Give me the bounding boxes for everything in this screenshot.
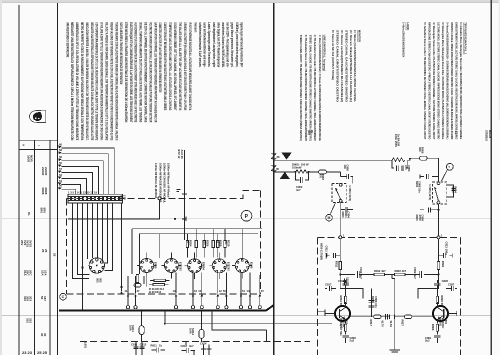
relay box 2 xyxy=(432,182,446,204)
oval fuse left xyxy=(134,284,141,288)
wire B corner down xyxy=(339,172,341,177)
svg-text:3= TB-Aufnahme Stereo links /: 3= TB-Aufnahme Stereo links / TB-RECORDI… xyxy=(313,35,317,141)
wire B cont xyxy=(309,171,319,173)
svg-text:6903: 6903 xyxy=(341,212,345,218)
wire A cont to oval xyxy=(408,158,420,160)
svg-text:C614: C614 xyxy=(200,341,207,345)
svg-text:5= TB-Aufnahme Stereo rechts /: 5= TB-Aufnahme Stereo rechts / TB-RECORD… xyxy=(304,35,308,141)
relay box S/M xyxy=(332,183,346,202)
right scan edge band xyxy=(499,0,500,120)
svg-text:C611: C611 xyxy=(131,343,138,347)
cap C802 emitter xyxy=(342,336,356,343)
socket V4 label xyxy=(227,262,231,271)
cap C952 bridge xyxy=(296,172,309,183)
svg-text:EF804: EF804 xyxy=(202,262,206,270)
svg-text:MEDIANTE UNA RESISTENZA DI SEP: MEDIANTE UNA RESISTENZA DI SEPARAZIONE T… xyxy=(90,22,94,140)
fan wire 2 xyxy=(62,154,109,194)
svg-text:BT2 12: BT2 12 xyxy=(177,150,181,159)
fan wire 8 xyxy=(62,189,76,194)
bottom cap group 1 xyxy=(131,342,147,355)
svg-text:B 211/214: B 211/214 xyxy=(149,290,162,294)
cap C909 below relay2 xyxy=(415,204,440,238)
bus drop left 1 xyxy=(131,229,133,274)
wire B horizontal xyxy=(274,171,295,173)
svg-text:1k: 1k xyxy=(159,343,162,347)
svg-text:58: 58 xyxy=(59,148,62,152)
cap C813 below left junction xyxy=(343,277,349,285)
note block German xyxy=(193,22,243,68)
tube socket V5 xyxy=(232,253,252,279)
main right vertical x438.5 xyxy=(438,158,440,182)
left scan edge band xyxy=(0,0,2,355)
svg-text:1 3 5 7 9 11 13 15 17 19: 1 3 5 7 9 11 13 15 17 19 xyxy=(68,190,97,194)
oval resistor R953 xyxy=(319,170,341,174)
svg-text:10n: 10n xyxy=(343,165,347,170)
resistor row r6 xyxy=(224,229,226,258)
svg-text:C816: C816 xyxy=(338,279,345,283)
resistor row labels xyxy=(186,240,193,247)
wire break squiggle B xyxy=(272,166,277,172)
cap C821 stub xyxy=(439,242,453,258)
cap C822 on wire xyxy=(405,267,422,279)
svg-text:C613: C613 xyxy=(181,344,188,348)
svg-text:01A: 01A xyxy=(23,270,27,276)
tube socket V2 xyxy=(161,253,181,279)
vertical x394.8 down xyxy=(389,279,400,353)
label S/M xyxy=(348,186,352,202)
mirror wire from right junction xyxy=(424,274,439,276)
svg-text:49R6: 49R6 xyxy=(41,187,45,195)
svg-text:STEREO CANAL DROIT / TB-REGIST: STEREO CANAL DROIT / TB-REGISTRAZIONE ST… xyxy=(299,35,303,141)
lower dashed box left edge xyxy=(316,237,318,355)
svg-text:1= Mono (CHASSIS/MASSE/MASA) M: 1= Mono (CHASSIS/MASSE/MASA) MONO CHANNE… xyxy=(353,30,357,102)
connector pin arrow 60 xyxy=(58,142,62,148)
cap C235 on dashed line xyxy=(177,150,188,240)
transistor T801 xyxy=(433,302,457,323)
svg-text:C822 4u7: C822 4u7 xyxy=(413,267,417,279)
svg-text:ETRE MESUREES A TRAVERS UNE RE: ETRE MESUREES A TRAVERS UNE RESISTANCE D… xyxy=(124,22,128,122)
L wire from bus down right 1 xyxy=(165,311,332,324)
svg-text:5= Aufnahme Stereo rechts / TB: 5= Aufnahme Stereo rechts / TB-RECORDING… xyxy=(423,22,427,139)
sidebar entries xyxy=(20,155,57,337)
svg-text:AMBIENTALE DI 20°C E COL REGOL: AMBIENTALE DI 20°C E COL REGOLATORE DI V… xyxy=(75,22,79,140)
oval fuse F611 xyxy=(139,312,144,342)
base rail left xyxy=(317,309,325,314)
svg-text:LECTURE MONO, LECTURE STEREO C: LECTURE MONO, LECTURE STEREO CANAL GAUCH… xyxy=(437,22,441,139)
wire bundle w5 xyxy=(92,203,94,258)
svg-text:2= Stereo links(1)/STEREO LH C: 2= Stereo links(1)/STEREO LH CHANNEL(1) xyxy=(349,30,353,102)
wire bundle w7 xyxy=(102,203,104,260)
svg-text:10MOhm), wenn nicht anders ang: 10MOhm), wenn nicht anders angegeben, xyxy=(235,22,239,67)
label 2x BA100 xyxy=(394,134,401,147)
svg-text:~: ~ xyxy=(38,144,40,148)
junction dots bottom xyxy=(164,323,166,325)
svg-text:57: 57 xyxy=(59,167,62,171)
ground contact C circle xyxy=(60,293,67,300)
wire x117.5 with junction and arrow xyxy=(120,203,123,294)
svg-text:CAPACITOR MUST BE MEASURED WIT: CAPACITOR MUST BE MEASURED WITH AN ELECT… xyxy=(163,22,167,110)
middle vertical x371.5 xyxy=(368,289,378,317)
fan wire 5 xyxy=(62,173,93,195)
svg-text:310: 310 xyxy=(26,318,30,323)
resistor row r1 xyxy=(186,234,188,258)
fuse label F612 xyxy=(188,328,195,336)
svg-text:MONITOR: MONITOR xyxy=(358,30,362,43)
svg-text:EF80: EF80 xyxy=(154,262,158,269)
svg-text:1k5: 1k5 xyxy=(203,240,207,245)
svg-text:R827: R827 xyxy=(400,320,404,327)
resistor row r2 xyxy=(195,229,197,258)
svg-text:6903: 6903 xyxy=(415,181,419,187)
sidebar line x50 xyxy=(49,140,51,355)
dashed box left edge xyxy=(66,198,68,293)
wire bundle w6 xyxy=(97,203,99,258)
emitter resistor R806 xyxy=(431,324,439,335)
svg-text:5R0: 5R0 xyxy=(39,208,43,214)
bus line lower xyxy=(140,233,259,235)
caps left of relay2 xyxy=(415,174,439,193)
svg-text:50: 50 xyxy=(223,289,226,293)
svg-text:1101er-M/ MASA AF-MODUL: 1101er-M/ MASA AF-MODUL xyxy=(154,163,158,199)
svg-text:53: 53 xyxy=(59,173,62,177)
svg-text:2u2: 2u2 xyxy=(425,338,430,342)
bottom cap group 2 xyxy=(151,343,166,352)
junction dots RC xyxy=(295,171,297,173)
lower dashed box right edge xyxy=(460,237,462,355)
label C952 xyxy=(296,185,303,192)
label C903 xyxy=(404,165,411,172)
svg-text:GRUNDIG VOLTMETER (Ri=10MOhm): GRUNDIG VOLTMETER (Ri=10MOhm) AND SHOULD… xyxy=(183,22,187,110)
svg-text:Y: Y xyxy=(448,165,450,169)
connector pin arrow 54 xyxy=(58,179,62,185)
fan wire 7 xyxy=(62,184,81,194)
svg-text:47: 47 xyxy=(137,289,140,293)
fold line lower xyxy=(2,315,491,317)
svg-text:6903: 6903 xyxy=(371,296,375,302)
svg-text:TEMPERATURE AND CLOSED VOLUME: TEMPERATURE AND CLOSED VOLUME CONTROL. A… xyxy=(168,22,172,110)
emitter resistor R807 xyxy=(339,324,347,336)
label R953 xyxy=(318,174,325,181)
svg-text:2u2: 2u2 xyxy=(350,338,355,342)
sidebar line x34.5 xyxy=(34,140,36,355)
dashed box right edge xyxy=(260,190,262,293)
svg-text:1k: 1k xyxy=(216,240,220,243)
svg-text:R822 4k7: R822 4k7 xyxy=(395,269,407,273)
svg-text:RIPRODUZIONE STEREO CANALE DES: RIPRODUZIONE STEREO CANALE DESTRO / PRES… xyxy=(428,22,432,139)
cap on mid rail xyxy=(380,314,387,327)
tube socket V4 xyxy=(209,252,229,278)
svg-text:1= Mono (CHASSIS/MASSE/MASSA): 1= Mono (CHASSIS/MASSE/MASSA) / 2= Masse… xyxy=(318,35,322,141)
label Ls xyxy=(454,131,458,135)
oval resistor on mid rail xyxy=(369,315,381,326)
svg-text:60: 60 xyxy=(59,142,62,146)
svg-text:STEREO CANAL GAUCHE/STEREO SIN: STEREO CANAL GAUCHE/STEREO SINISTRO xyxy=(344,30,348,103)
label L601 xyxy=(84,342,88,349)
svg-text:UNA RESISTENZA DI SEPARAZIONE: UNA RESISTENZA DI SEPARAZIONE xyxy=(65,22,69,57)
svg-text:310: 310 xyxy=(23,296,27,301)
svg-text:R812 4k7: R812 4k7 xyxy=(374,269,386,273)
svg-text:U 908 (1176): U 908 (1176) xyxy=(428,185,432,201)
svg-text:Ls: Ls xyxy=(454,131,458,135)
svg-text:MEDIANTE UNA RESISTENZA DI SEP: MEDIANTE UNA RESISTENZA DI SEPARAZIONE D… xyxy=(70,22,74,140)
label module 6903 xyxy=(320,243,324,260)
cap C801 emitter xyxy=(425,336,441,343)
svg-text:0,8A: 0,8A xyxy=(188,328,192,334)
tiny corner note xyxy=(485,130,493,141)
connector pin arrow 58 xyxy=(58,148,62,154)
svg-text:303: 303 xyxy=(96,278,100,283)
resistor cluster left vertical xyxy=(136,275,138,285)
svg-text:1= Aufnahme Mono, Wiedergabe S: 1= Aufnahme Mono, Wiedergabe Stereo link… xyxy=(459,22,463,139)
svg-text:ten bei 220V~ Netzspannung und: ten bei 220V~ Netzspannung und ein- xyxy=(226,22,230,67)
svg-text:56: 56 xyxy=(59,155,62,159)
svg-text:schaltetem Kondensator 0,1uF m: schaltetem Kondensator 0,1uF messen. xyxy=(198,22,202,67)
mid rail y316.8 xyxy=(351,315,433,319)
svg-text:C817: C817 xyxy=(325,282,332,286)
wire right from junction xyxy=(340,274,355,276)
svg-text:MILLIVOLT A PRESSO SU NOR 2x4W: MILLIVOLT A PRESSO SU NOR 2x4W/ML SENZA … xyxy=(105,22,109,140)
cap C812 on wire xyxy=(358,267,375,279)
cap C811 stub xyxy=(325,246,341,260)
svg-text:=: = xyxy=(23,144,25,148)
svg-text:sator mit Roehrenvoltmeter und: sator mit Roehrenvoltmeter und vorge- xyxy=(203,22,207,67)
svg-text:470: 470 xyxy=(318,174,322,179)
svg-text:25 25: 25 25 xyxy=(37,350,48,355)
resistor R821 xyxy=(437,261,445,289)
connector pin arrow 55 xyxy=(58,161,62,167)
svg-text:6903: 6903 xyxy=(451,187,455,193)
label C904 xyxy=(341,212,351,219)
label relay 2 xyxy=(428,185,432,201)
wire bundle below strip w1 xyxy=(73,203,90,279)
svg-text:25: 25 xyxy=(53,253,57,257)
pickup circle Y1 xyxy=(442,163,454,181)
socket V3 label xyxy=(202,262,206,270)
resistor row r5 xyxy=(217,234,219,258)
svg-text:3= Wiedergabe Mono, Wiedergabe: 3= Wiedergabe Mono, Wiedergabe Stereo li… xyxy=(441,22,445,139)
sidebar header row xyxy=(19,140,58,149)
pin circle right input xyxy=(437,236,440,239)
junction right stage xyxy=(438,274,440,276)
svg-text:C827: C827 xyxy=(448,282,455,286)
cap C904 below relay xyxy=(340,184,353,238)
svg-text:30: 30 xyxy=(40,333,44,337)
svg-text:GOOD WORKING ORDER. SET TO NOR: GOOD WORKING ORDER. SET TO NOR 2x4W/ML, … xyxy=(173,22,177,111)
svg-text:DI VOLUME A ZERO TUTTE LE TENS: DI VOLUME A ZERO TUTTE LE TENSIONI SONO … xyxy=(100,22,104,140)
logo emblem xyxy=(29,110,45,122)
svg-text:54: 54 xyxy=(59,179,62,183)
svg-text:gegen Masse gemessen. Messwert: gegen Masse gemessen. Messwerte gel- xyxy=(230,22,234,67)
contact arrows row on dashed line xyxy=(125,273,265,297)
bus line upper xyxy=(132,228,262,230)
list MONITOR xyxy=(331,30,361,103)
svg-text:SAUF INDICATION CONTRAIRE, LES: SAUF INDICATION CONTRAIRE, LES TENSIONS … xyxy=(153,22,157,122)
svg-text:1= Mono (CHASSIS/MASSE/MASSA: 1= Mono (CHASSIS/MASSE/MASSA xyxy=(402,22,406,58)
wire bundle w3 + junction xyxy=(82,203,84,310)
label R956 xyxy=(418,147,425,154)
wire bundle w8 xyxy=(104,203,108,263)
cap C817 stub left xyxy=(325,282,336,291)
right collector parts: cap C826 top xyxy=(418,279,449,299)
svg-text:35: 35 xyxy=(276,167,279,171)
svg-text:100n 250V: 100n 250V xyxy=(394,134,398,147)
drop from L wire 1 xyxy=(266,330,268,342)
svg-text:VOLTMETRE GRUNDIG (Ri=10MOhm).: VOLTMETRE GRUNDIG (Ri=10MOhm). LES VALEU… xyxy=(148,22,152,122)
svg-text:wandfreiem Zustand auf NOR 2x4: wandfreiem Zustand auf NOR 2x4 W/ML xyxy=(221,22,225,68)
svg-text:13: 13 xyxy=(173,289,176,293)
svg-text:4n7: 4n7 xyxy=(189,344,194,348)
bus drop left 2 xyxy=(139,234,141,274)
svg-text:ohne Signal, bei 20°C Raumtemp: ohne Signal, bei 20°C Raumtemperatur xyxy=(216,22,220,67)
right stage vertical line xyxy=(438,239,440,262)
svg-text:6L7V: 6L7V xyxy=(380,321,384,328)
wires from arrows to bus pins xyxy=(128,297,260,307)
label R211/R214 xyxy=(149,287,164,294)
svg-text:R806: R806 xyxy=(431,324,435,331)
resistor R955 zigzag on wire A xyxy=(392,158,405,162)
wire bundle w2 xyxy=(78,203,90,275)
label T802 xyxy=(339,318,348,328)
svg-text:6903: 6903 xyxy=(415,215,419,221)
svg-text:14: 14 xyxy=(247,289,250,293)
socket label 302 303 xyxy=(96,278,103,283)
label D961 xyxy=(292,162,309,169)
svg-text:und eingebautem Lautsprecher,: und eingebautem Lautsprecher, regler xyxy=(212,22,216,67)
resistor R816 on collector xyxy=(339,296,347,308)
svg-text:R821: R821 xyxy=(441,261,445,268)
wire A horizontal xyxy=(274,159,392,161)
pin circle left input xyxy=(339,236,342,239)
svg-text:CONNECTED CAPACITOR OF 0,1uF.: CONNECTED CAPACITOR OF 0,1uF. MUST BE ME… xyxy=(158,22,162,92)
connector pin arrow 56 xyxy=(58,155,62,161)
fuse label F611 xyxy=(128,325,135,332)
resistor R811 xyxy=(334,261,345,289)
svg-text:AUX BORNES D'UN CONDENSATEUR D: AUX BORNES D'UN CONDENSATEUR DE LIAISON … xyxy=(134,22,138,122)
dashed box bottom edge xyxy=(67,293,261,295)
tube socket V3 xyxy=(185,252,205,278)
svg-text:ECC83: ECC83 xyxy=(179,262,183,271)
heater indicator circle G xyxy=(241,210,252,221)
svg-text:LINE (UNIVERSAL, Ausgang): LINE (UNIVERSAL, Ausgang) xyxy=(323,35,327,71)
svg-text:1000er-M/ MASSE MODULE BF: 1000er-M/ MASSE MODULE BF xyxy=(158,163,162,203)
svg-text:5= Stereo im NF-Teil (OUTPUT S: 5= Stereo im NF-Teil (OUTPUT STAGE) xyxy=(331,30,335,80)
svg-text:ELECTRONIQUE ET UN CONDENSATEU: ELECTRONIQUE ET UN CONDENSATEUR DE 0,1uF… xyxy=(129,22,133,123)
fold line upper xyxy=(2,217,491,219)
svg-text:0,8A: 0,8A xyxy=(128,325,132,331)
connector pin arrow 57 xyxy=(58,167,62,173)
oval fuse F612 xyxy=(199,312,204,342)
svg-text:(6903): (6903) xyxy=(439,318,443,326)
bus drop V5 xyxy=(241,229,243,253)
resistor row r3 xyxy=(203,234,205,258)
svg-text:41: 41 xyxy=(125,289,128,293)
svg-text:L601: L601 xyxy=(84,342,88,349)
wire bundle w9 xyxy=(105,203,113,271)
svg-text:THE VALUES GIVEN. ALL VALUES F: THE VALUES GIVEN. ALL VALUES FOR 220V~ A… xyxy=(178,22,182,110)
oval resistor R956 xyxy=(420,156,439,160)
svg-text:ECC83: ECC83 xyxy=(227,262,231,271)
fan wire 4 xyxy=(62,167,99,195)
socket V5 label xyxy=(250,262,254,269)
svg-text:160R: 160R xyxy=(26,155,30,163)
svg-text:R811: R811 xyxy=(334,261,338,268)
dashed bottom rail xyxy=(80,341,310,343)
list LINE UNIVERSAL xyxy=(299,35,327,141)
wire bundle w4 xyxy=(87,203,89,259)
svg-text:STEREO CANAL GAUCHE / TB-REGIS: STEREO CANAL GAUCHE / TB-REGISTRAZIONE S… xyxy=(309,35,313,141)
diagonal to M circle xyxy=(331,203,336,214)
svg-text:45: 45 xyxy=(261,289,264,293)
right page border line xyxy=(490,0,492,355)
bus drop V2 xyxy=(159,234,161,258)
svg-text:DE 220V CA, L'APPAREIL EN ETAT: DE 220V CA, L'APPAREIL EN ETAT DE FONCTI… xyxy=(144,22,148,122)
oval resistor right mid rail xyxy=(400,315,412,326)
fan wire 3 xyxy=(62,161,104,195)
note block French xyxy=(119,22,157,123)
svg-text:55: 55 xyxy=(59,161,62,165)
dashed box tube section top edge xyxy=(67,190,261,198)
svg-text:ENREGISTREMENT MONO, LECTURE S: ENREGISTREMENT MONO, LECTURE STEREO CANA… xyxy=(455,22,459,139)
fan wire 6 xyxy=(62,179,87,195)
svg-text:C821 100n: C821 100n xyxy=(445,242,449,256)
svg-text:CON TEMPERATURA AMBIENTALE DI: CON TEMPERATURA AMBIENTALE DI 20°C E COL… xyxy=(95,22,99,140)
resistor R812 horizontal xyxy=(374,269,392,279)
svg-text:TENSIONI MISURATE CON MILLIVOL: TENSIONI MISURATE CON MILLIVOLTMETRO GRU… xyxy=(114,22,118,140)
svg-text:SONT A MESURER A TRAVERS UNE R: SONT A MESURER A TRAVERS UNE RESISTANCE … xyxy=(119,22,123,84)
label T801 xyxy=(439,318,448,328)
caps under R955 xyxy=(392,160,408,171)
svg-text:10: 10 xyxy=(198,289,201,293)
junction dot on y219 wire xyxy=(174,218,176,220)
svg-text:51: 51 xyxy=(242,289,245,293)
svg-text:DL: DL xyxy=(27,212,31,216)
svg-text:16: 16 xyxy=(194,289,197,293)
svg-text:MISURA VALGONO CON TENSIONE DI: MISURA VALGONO CON TENSIONE DI RETE DI 2… xyxy=(109,22,113,140)
resistor R822 horizontal xyxy=(392,269,407,276)
svg-text:4n7: 4n7 xyxy=(296,188,301,192)
svg-text:10A: 10A xyxy=(40,270,44,276)
label AF module 4 lines xyxy=(154,163,171,203)
label C235 xyxy=(177,150,184,160)
resistor R214 horizontal xyxy=(149,284,169,286)
svg-text:Spannungen mit Grundig-Voltmet: Spannungen mit Grundig-Voltmeter (Ri= xyxy=(239,22,243,67)
tick terminal on y219 xyxy=(182,217,186,221)
svg-text:SL54: SL54 xyxy=(389,321,393,328)
svg-text:SINISTRO CANALE / PRESA MONO-P: SINISTRO CANALE / PRESA MONO-PRESA STERE… xyxy=(450,22,454,139)
socket V1 label xyxy=(154,262,158,269)
DIN tube socket big xyxy=(89,258,104,273)
junction left stage xyxy=(339,274,341,276)
svg-text:23 23: 23 23 xyxy=(22,350,33,355)
left collector parts: cap C816 top xyxy=(338,279,363,299)
cap right of relay2 loop xyxy=(447,185,458,197)
svg-text:C811 100n: C811 100n xyxy=(325,246,329,260)
connector pin arrow 53 xyxy=(58,173,62,179)
svg-text:25: 25 xyxy=(41,249,45,253)
svg-text:R817: R817 xyxy=(369,320,373,327)
wire break squiggle A xyxy=(272,154,277,160)
long vertical rail x273.5 xyxy=(273,3,275,355)
sidebar line x57.5 xyxy=(57,3,59,355)
node circle on dashed top xyxy=(158,197,161,200)
svg-text:2x600: 2x600 xyxy=(41,167,45,176)
list TB/TA xyxy=(423,22,468,139)
cap C827 stub right xyxy=(446,282,457,291)
resistor row r4 xyxy=(212,229,214,258)
svg-text:R807 56k: R807 56k xyxy=(339,324,343,336)
svg-text:25V: 25V xyxy=(20,240,24,245)
L wire from bus down right 2 xyxy=(212,311,267,331)
